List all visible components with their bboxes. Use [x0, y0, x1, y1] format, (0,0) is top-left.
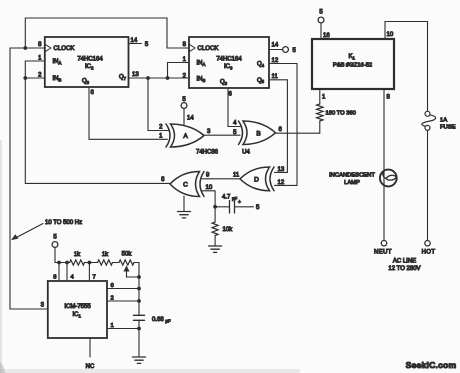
node: pin1 junction [137, 327, 141, 331]
svg-text:ICM-7555: ICM-7555 [64, 304, 91, 310]
wire: IC1 pin8 [58, 263, 60, 282]
svg-text:12 TO 280V: 12 TO 280V [388, 266, 420, 272]
svg-text:5: 5 [53, 235, 57, 241]
svg-text:Q3: Q3 [220, 80, 228, 86]
wire: IC2 Q7 pin13 to IC3 INB [129, 77, 190, 79]
svg-text:6: 6 [279, 127, 283, 133]
svg-text:8: 8 [161, 177, 165, 183]
incandescent lamp DS1 [380, 170, 397, 187]
svg-text:8: 8 [183, 42, 187, 48]
capacitor C2 0.68uF plates [134, 315, 145, 320]
svg-text:1A: 1A [440, 118, 447, 124]
capacitor C1 4.7uF plates [230, 201, 235, 214]
svg-text:Q5: Q5 [257, 78, 265, 84]
resistor R3 1k [70, 260, 85, 265]
svg-text:P&B #GZ16-52: P&B #GZ16-52 [333, 63, 372, 69]
wire: relay pin8 down to NEUT [383, 89, 385, 240]
svg-text:14: 14 [131, 38, 138, 44]
wire: IC1 NC pin [89, 338, 91, 357]
ground below IC1 rail [133, 357, 146, 363]
wire: 7555 output pin3 to left rail and up to IC2 clock [10, 48, 48, 309]
node: IC2 5V rail junction [57, 261, 61, 265]
svg-text:SeekIC.com: SeekIC.com [406, 360, 457, 370]
svg-text:6: 6 [229, 92, 233, 98]
node: Q7 junction to IC3 INA [166, 76, 170, 80]
svg-text:4: 4 [71, 275, 75, 281]
arrow: frequency callout [11, 224, 43, 241]
svg-text:2: 2 [183, 74, 187, 80]
svg-text:HOT: HOT [422, 250, 436, 256]
wire: top rail of IC1 [55, 262, 70, 264]
resistor R1 180-360 [317, 104, 323, 121]
svg-text:10: 10 [206, 185, 213, 191]
terminal: 5V at IC3 pin14 [283, 47, 289, 53]
svg-text:10k: 10k [223, 227, 234, 233]
svg-text:16: 16 [323, 33, 330, 39]
fuse F1 1A [422, 111, 436, 130]
wire: node to resistor 10k [214, 207, 216, 222]
svg-text:74HC164: 74HC164 [77, 57, 103, 63]
wire: gate B output 6 to relay coil resistor [276, 132, 320, 134]
scan artifact bottom band [0, 369, 300, 373]
wire: gate A output 3 to gate B input 5 [204, 134, 240, 136]
wire: IC3 Q3 pin6 down to gate B input 4 [228, 88, 240, 127]
svg-text:INCANDESCENT: INCANDESCENT [329, 173, 375, 179]
svg-text:INB: INB [53, 76, 62, 82]
wire: IC3 Q5 pin11 down to gate D input 13 [269, 80, 287, 173]
svg-text:IC3: IC3 [224, 64, 233, 70]
wire: IC2 INB from gate C output rail [25, 78, 170, 183]
svg-text:4.7 µF: 4.7 µF [222, 195, 237, 201]
resistor R2 10k [212, 222, 218, 236]
terminal: 5V at relay pin16 [318, 17, 324, 23]
svg-text:3: 3 [41, 303, 45, 309]
svg-text:50k: 50k [122, 252, 133, 258]
svg-text:12: 12 [278, 180, 285, 186]
svg-text:7: 7 [93, 275, 96, 281]
svg-text:6: 6 [91, 90, 95, 96]
svg-text:+: + [238, 200, 241, 206]
wire: rail end down right side [134, 263, 139, 316]
svg-text:0.68 µF: 0.68 µF [152, 317, 171, 323]
wire: IC1 pin1 to rail [107, 328, 139, 330]
wire: IC3 pin14 to 5V terminal [269, 49, 283, 51]
svg-text:B: B [256, 131, 260, 138]
wire: resistor R1 to gate B output [319, 121, 321, 133]
wire: jog up to IC3 INA [168, 63, 190, 79]
svg-text:D: D [254, 177, 259, 184]
svg-text:10 TO 500 Hz: 10 TO 500 Hz [45, 220, 82, 226]
resistor R4 1k [98, 260, 113, 265]
wire: gate C input 10 to RC node [202, 191, 215, 207]
wire: IC1 pin4 [66, 263, 68, 282]
svg-text:5: 5 [319, 10, 323, 16]
IC U3 74HC164 box [189, 37, 269, 88]
svg-text:8: 8 [38, 42, 42, 48]
svg-text:INA: INA [53, 59, 62, 65]
terminal: 5V for IC1 [52, 242, 58, 248]
svg-text:13: 13 [278, 167, 285, 173]
svg-text:11: 11 [233, 173, 240, 179]
scan artifact bottom left corner [0, 362, 6, 373]
wire: node to capacitor C1 [215, 206, 229, 208]
wire: gate A pin14 supply [183, 108, 185, 124]
wire: rail between R4 and R5 [113, 262, 120, 264]
node: IC2 INA/INB junction [23, 76, 27, 80]
svg-text:5: 5 [182, 97, 186, 103]
svg-text:74HC164: 74HC164 [216, 57, 242, 63]
terminal: NEUT [381, 241, 386, 246]
wire: rail below cap to ground [138, 320, 140, 357]
svg-text:8: 8 [53, 275, 56, 281]
wire: relay pin1 to resistor R1 [319, 89, 321, 104]
wire: relay pin10 to fuse [385, 22, 428, 112]
svg-text:IC2: IC2 [85, 64, 94, 70]
op: XOR gate B (74HC86) [239, 121, 276, 145]
svg-text:Q3: Q3 [82, 79, 90, 85]
svg-text:Q4: Q4 [257, 62, 265, 68]
wire: capacitor C1 to 5V [235, 206, 254, 208]
svg-text:2: 2 [159, 125, 163, 131]
wire: relay pin16 to 5V terminal [320, 23, 322, 39]
svg-text:INA: INA [197, 61, 206, 67]
op: XOR gate D (74HC86) [240, 167, 274, 191]
svg-text:1k: 1k [102, 252, 109, 258]
svg-text:10: 10 [387, 32, 394, 38]
svg-text:8: 8 [387, 95, 391, 101]
svg-text:1k: 1k [74, 252, 81, 258]
svg-text:AC LINE: AC LINE [393, 259, 416, 265]
potentiometer R5 50k [119, 260, 134, 265]
svg-text:13: 13 [132, 72, 139, 78]
svg-text:14: 14 [187, 116, 194, 122]
wire: IC2 pin14 to 5V [129, 43, 142, 45]
wiper of R5 [123, 266, 139, 278]
svg-text:U4: U4 [242, 150, 250, 156]
ground below gate C [178, 212, 191, 218]
svg-text:5: 5 [145, 42, 149, 48]
wire: gate C input 9 from gate D output 11 [202, 178, 241, 180]
wire: Q7 down to gate A input 2 [148, 78, 168, 131]
wire: IC1 pin2 to rail [107, 300, 139, 302]
svg-text:9: 9 [206, 173, 210, 179]
op: XOR gate C (74HC86) [170, 172, 204, 197]
wire: top line from clock node to IC3 clock [25, 18, 189, 48]
svg-text:1: 1 [159, 134, 163, 140]
wire: IC2 INA tie to INB [25, 61, 45, 78]
svg-text:180 TO 360: 180 TO 360 [326, 111, 356, 117]
node: pin4 junction [65, 261, 69, 265]
node: RC junction [213, 205, 217, 209]
svg-text:14: 14 [272, 43, 279, 49]
op: XOR gate A (74HC86) [166, 124, 204, 147]
clock wedge IC2 [45, 44, 51, 51]
svg-text:74HC86: 74HC86 [196, 150, 219, 156]
svg-text:1: 1 [322, 95, 326, 101]
svg-text:3: 3 [207, 129, 211, 135]
node: wiper junction [137, 275, 141, 279]
wire: gate C ground stub [183, 196, 185, 212]
wire: IC2 Q3 pin6 down to gate A input 1 [89, 87, 168, 139]
wire: IC1 pin6 to rail [107, 288, 139, 290]
svg-text:11: 11 [272, 74, 279, 80]
wire: rail between R3 and R4 [85, 262, 98, 264]
svg-text:CLOCK: CLOCK [198, 46, 219, 52]
node: pin6 junction [137, 287, 141, 291]
svg-text:K1: K1 [349, 54, 356, 60]
svg-text:A: A [183, 133, 188, 140]
IC U1 ICM-7555 box [48, 281, 107, 338]
relay K1 box [312, 39, 394, 89]
wire: fuse to HOT [427, 131, 429, 241]
wire: IC3 Q4 pin12 down to gate D input 12 [269, 64, 297, 186]
terminal: HOT [425, 241, 430, 246]
svg-text:CLOCK: CLOCK [54, 46, 75, 52]
wire: IC1 pin7 [88, 263, 90, 282]
svg-text:NEUT: NEUT [374, 250, 392, 256]
node: pin2 junction [137, 299, 141, 303]
IC U2 74HC164 box [45, 37, 129, 87]
node: pin7 junction [88, 261, 92, 265]
node: Q7 junction to gate A [146, 76, 150, 80]
scan artifact left edge [0, 140, 2, 373]
node: junction clock rail / top feed [23, 46, 27, 50]
terminal: 5V above gate A pin14 [181, 103, 187, 109]
svg-text:4: 4 [233, 121, 237, 127]
wire: gate A input 2 stub [163, 130, 169, 132]
svg-text:INB: INB [197, 77, 206, 83]
ground below 10k [209, 246, 222, 252]
svg-text:LAMP: LAMP [344, 180, 360, 186]
svg-text:C: C [183, 182, 188, 189]
svg-text:IC1: IC1 [73, 312, 82, 318]
wire: 5V terminal to rail [54, 247, 56, 262]
clock wedge IC3 [190, 44, 196, 51]
svg-text:5: 5 [256, 205, 260, 211]
svg-text:5: 5 [293, 48, 297, 54]
svg-text:Q7: Q7 [119, 75, 127, 81]
wire: 10k to ground [214, 236, 216, 247]
svg-text:FUSE: FUSE [440, 125, 456, 131]
